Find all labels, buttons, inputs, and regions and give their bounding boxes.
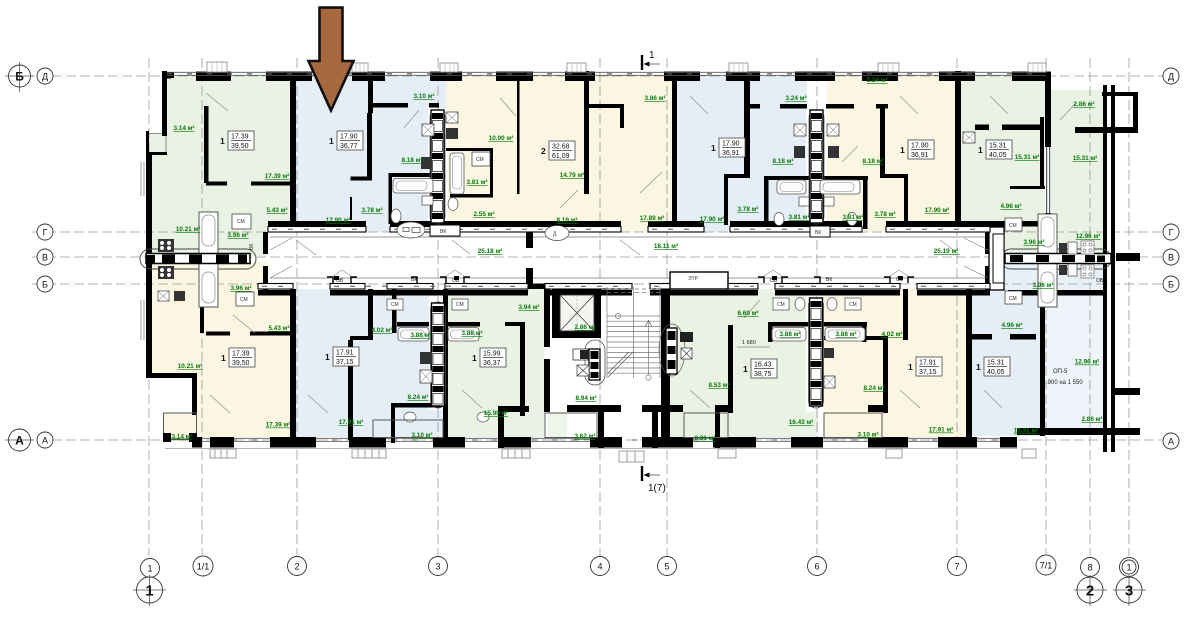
- apartment labels: [220, 131, 1083, 386]
- svg-text:17.39: 17.39: [232, 351, 250, 358]
- svg-text:3.62 м²: 3.62 м²: [574, 433, 595, 440]
- B1 cream bottom-left: [152, 289, 295, 375]
- A3 internal: [517, 79, 520, 194]
- A4 internal: [744, 79, 750, 177]
- svg-text:16.43 м²: 16.43 м²: [789, 419, 814, 426]
- svg-text:3.14 м²: 3.14 м²: [171, 434, 192, 441]
- bathroom fixtures top band: [391, 112, 975, 226]
- svg-text:15.31: 15.31: [987, 360, 1005, 367]
- right entrance core section: [964, 214, 1111, 307]
- ETR room: [670, 272, 728, 289]
- svg-text:Б: Б: [42, 280, 48, 290]
- svg-text:14.79 м²: 14.79 м²: [560, 172, 585, 179]
- svg-text:8.24 м²: 8.24 м²: [407, 394, 428, 401]
- svg-text:А: А: [15, 434, 24, 448]
- top wet core whites: [428, 108, 448, 228]
- svg-text:СМ: СМ: [240, 297, 248, 303]
- svg-text:10.21 м²: 10.21 м²: [178, 363, 203, 370]
- svg-text:37,15: 37,15: [919, 369, 937, 376]
- svg-text:15.31 м²: 15.31 м²: [1073, 155, 1098, 162]
- svg-text:1(7): 1(7): [648, 483, 666, 494]
- svg-text:17.90: 17.90: [340, 134, 358, 141]
- svg-text:1: 1: [145, 583, 153, 600]
- B4 internal: [728, 325, 733, 413]
- svg-text:40,05: 40,05: [987, 369, 1005, 376]
- B1 kitchen fixtures: [158, 291, 169, 301]
- B3 left wall: [443, 289, 448, 437]
- room fills: [146, 76, 1103, 441]
- corridor door labels: [249, 222, 1104, 284]
- svg-text:2.55 м²: 2.55 м²: [473, 211, 494, 218]
- wet core top 2: [809, 110, 824, 224]
- svg-text:17.91 м²: 17.91 м²: [929, 427, 954, 434]
- svg-text:СМ: СМ: [456, 302, 464, 308]
- apt B4 label: [743, 359, 777, 378]
- svg-text:2.86 м²: 2.86 м²: [1073, 101, 1094, 108]
- wing corridor green: [1051, 90, 1103, 253]
- svg-text:3.81 м²: 3.81 м²: [466, 179, 487, 186]
- svg-text:3.78 м²: 3.78 м²: [361, 207, 382, 214]
- svg-text:17.39 м²: 17.39 м²: [266, 422, 291, 429]
- plumbing column with tubs: [199, 212, 218, 307]
- svg-text:3.86 м²: 3.86 м²: [644, 95, 665, 102]
- A3 bath: [450, 153, 464, 194]
- svg-text:3.31 м²: 3.31 м²: [694, 435, 715, 442]
- B5/B6 wall: [966, 289, 972, 437]
- svg-text:18.11 м²: 18.11 м²: [654, 243, 678, 250]
- stove top: [158, 239, 174, 279]
- svg-text:В: В: [1168, 253, 1174, 263]
- svg-text:15.99: 15.99: [483, 351, 501, 358]
- svg-text:1: 1: [1126, 563, 1131, 573]
- svg-text:6: 6: [814, 562, 819, 572]
- svg-text:2: 2: [294, 562, 299, 572]
- svg-text:3: 3: [435, 562, 440, 572]
- svg-text:3.96 м²: 3.96 м²: [1032, 282, 1053, 289]
- svg-text:17.91: 17.91: [919, 360, 937, 367]
- window sills below bottom wall: [210, 449, 1036, 462]
- leader lines: [206, 93, 1075, 413]
- svg-text:ВК: ВК: [249, 244, 255, 250]
- apt B2 label: [325, 347, 359, 366]
- svg-text:3.10 м²: 3.10 м²: [857, 432, 878, 439]
- svg-text:10.21 м²: 10.21 м²: [176, 226, 201, 233]
- walls: [146, 71, 1140, 452]
- svg-text:3.88 м²: 3.88 м²: [461, 330, 482, 337]
- svg-text:2: 2: [1086, 583, 1094, 600]
- svg-text:7: 7: [954, 562, 959, 572]
- svg-text:СМ: СМ: [1009, 296, 1017, 302]
- apt A3 label: [541, 141, 575, 160]
- wet core bottom 2: [809, 298, 824, 408]
- svg-text:17.91 м²: 17.91 м²: [339, 419, 364, 426]
- B3 internal: [520, 322, 525, 416]
- svg-text:СМ: СМ: [476, 157, 484, 163]
- stair core white: [550, 289, 661, 412]
- left exterior wall: [162, 71, 167, 136]
- svg-text:1: 1: [976, 362, 981, 372]
- svg-text:3.88 м²: 3.88 м²: [779, 331, 800, 338]
- svg-text:ЭТР: ЭТР: [688, 276, 699, 282]
- arrow: [309, 8, 354, 111]
- apt B3 label: [472, 348, 506, 367]
- svg-text:3.81 м²: 3.81 м²: [788, 214, 809, 221]
- svg-text:39,50: 39,50: [231, 143, 249, 150]
- B6 internal: [972, 334, 992, 340]
- svg-text:1/1: 1/1: [197, 562, 210, 572]
- svg-text:ВК: ВК: [815, 230, 821, 236]
- svg-text:1: 1: [711, 143, 716, 153]
- svg-text:Г: Г: [43, 228, 48, 238]
- svg-text:17.39: 17.39: [231, 134, 249, 141]
- svg-text:3: 3: [1125, 583, 1133, 600]
- apt A1 label: [220, 131, 254, 150]
- apartment A5 cream: [827, 76, 955, 232]
- svg-text:ВК: ВК: [826, 277, 832, 283]
- apartment A3 cream: [446, 76, 672, 232]
- bathroom fixtures bottom band: [158, 291, 865, 422]
- CM boxes: [232, 214, 251, 229]
- svg-text:3.81 м²: 3.81 м²: [842, 214, 863, 221]
- svg-text:32.68: 32.68: [552, 144, 570, 151]
- svg-text:8.18 м²: 8.18 м²: [401, 157, 422, 164]
- svg-text:38,75: 38,75: [754, 371, 772, 378]
- left entrance core section: [140, 212, 256, 307]
- svg-text:Г: Г: [1169, 228, 1174, 238]
- svg-text:4.96 м²: 4.96 м²: [1000, 203, 1021, 210]
- B2 tubs flanking core3: [398, 328, 429, 342]
- svg-text:37,15: 37,15: [336, 359, 354, 366]
- svg-text:36,77: 36,77: [340, 143, 358, 150]
- corridor bottom wall: black apartment-side bar: [258, 290, 293, 296]
- wing bottom bar: [1017, 428, 1140, 435]
- svg-text:1: 1: [472, 353, 477, 363]
- A6 window overlay: [1045, 147, 1051, 213]
- grid axes dashed: [10, 58, 1163, 556]
- svg-text:3.14 м²: 3.14 м²: [173, 125, 194, 132]
- B1 internal walls: [200, 289, 204, 333]
- corridor outlined walls: [258, 227, 990, 290]
- svg-text:61,09: 61,09: [552, 153, 570, 160]
- apartment A2 blue: [296, 76, 452, 232]
- corridor side walls: [263, 232, 268, 254]
- svg-text:17.90: 17.90: [911, 143, 929, 150]
- svg-text:8: 8: [1087, 563, 1092, 573]
- A2 internal: [368, 76, 373, 113]
- thin balcony rails bottom: [373, 413, 882, 438]
- svg-text:1: 1: [220, 136, 225, 146]
- B2 internal: [348, 340, 353, 440]
- svg-text:1: 1: [743, 364, 748, 374]
- apt A6 label: [978, 140, 1012, 159]
- svg-text:5.43 м²: 5.43 м²: [268, 325, 289, 332]
- svg-text:3.78 м²: 3.78 м²: [874, 211, 895, 218]
- top wall thin window lines: [167, 72, 1046, 75]
- bottom exterior wall piers: [210, 437, 234, 448]
- svg-text:СМ: СМ: [849, 302, 857, 308]
- svg-text:25.18 м²: 25.18 м²: [478, 248, 503, 255]
- svg-text:4: 4: [597, 562, 602, 572]
- stair-side kitchen stack right: [659, 324, 693, 376]
- svg-text:5: 5: [664, 562, 669, 572]
- svg-text:3.96 м²: 3.96 м²: [1023, 239, 1044, 246]
- B4 green: [670, 289, 818, 437]
- svg-text:10.00 м²: 10.00 м²: [489, 135, 514, 142]
- svg-text:ОП-5: ОП-5: [1053, 369, 1068, 375]
- svg-text:3.24 м²: 3.24 м²: [785, 95, 806, 102]
- balcony thin outlines: [164, 413, 197, 439]
- svg-text:2.86 м²: 2.86 м²: [574, 324, 595, 331]
- dimension 1680: [737, 346, 770, 348]
- section marks: [642, 55, 660, 481]
- apt A4 label: [711, 138, 745, 157]
- svg-text:3.24 м²: 3.24 м²: [866, 77, 887, 84]
- svg-text:39,50: 39,50: [232, 360, 250, 367]
- svg-text:36,91: 36,91: [911, 152, 929, 159]
- svg-text:СМ: СМ: [1009, 223, 1017, 229]
- stair core walls: [544, 287, 550, 347]
- B4/B5 tubs flanking core4: [772, 328, 806, 342]
- right core fills: [996, 232, 1103, 254]
- svg-text:3.96 м²: 3.96 м²: [227, 232, 248, 239]
- svg-text:1: 1: [329, 136, 334, 146]
- svg-text:17.90 м²: 17.90 м²: [925, 207, 950, 214]
- svg-text:СМ: СМ: [391, 302, 399, 308]
- svg-text:12.96 м²: 12.96 м²: [1076, 233, 1101, 240]
- svg-text:4.02 м²: 4.02 м²: [371, 327, 392, 334]
- svg-text:Б: Б: [15, 70, 24, 84]
- svg-text:6.60 м²: 6.60 м²: [737, 310, 758, 317]
- svg-text:1: 1: [221, 353, 226, 363]
- svg-text:1: 1: [978, 145, 983, 155]
- A1/A2 wall: [290, 76, 296, 232]
- apt B1 label: [221, 348, 255, 367]
- svg-text:1: 1: [147, 564, 152, 574]
- window bumps above top wall: [207, 62, 1046, 72]
- svg-text:15.31 м²: 15.31 м²: [1014, 428, 1039, 435]
- svg-text:8.18 м²: 8.18 м²: [862, 158, 883, 165]
- svg-text:.900 на 1 550: .900 на 1 550: [1046, 380, 1083, 386]
- apartment A1 green: [162, 76, 296, 232]
- stair-side kitchen stack left: [573, 340, 605, 385]
- svg-text:Д: Д: [42, 72, 48, 82]
- wet core bottom 1: [431, 302, 446, 408]
- svg-text:17.90 м²: 17.90 м²: [700, 216, 725, 223]
- apt A5 label: [900, 140, 934, 159]
- thin gray details: [141, 134, 1017, 449]
- svg-text:В: В: [42, 253, 48, 263]
- svg-text:4.02 м²: 4.02 м²: [881, 331, 902, 338]
- svg-text:8.24 м²: 8.24 м²: [863, 385, 884, 392]
- svg-text:А: А: [42, 436, 48, 446]
- svg-text:15.31: 15.31: [989, 143, 1007, 150]
- svg-text:17.39 м²: 17.39 м²: [265, 173, 290, 180]
- svg-text:1 680: 1 680: [742, 340, 756, 346]
- stairs: [607, 287, 660, 380]
- svg-text:3.88 м²: 3.88 м²: [410, 332, 431, 339]
- svg-text:40,05: 40,05: [989, 152, 1007, 159]
- apt B5 label: [908, 357, 942, 376]
- B2 blue: [295, 289, 447, 437]
- svg-text:А: А: [1168, 437, 1174, 447]
- svg-text:36,37: 36,37: [483, 360, 501, 367]
- svg-text:17.90 м²: 17.90 м²: [326, 217, 351, 224]
- apt B6 label: [976, 357, 1010, 376]
- svg-text:8.94 м²: 8.94 м²: [575, 395, 596, 402]
- svg-text:15.31 м²: 15.31 м²: [1015, 154, 1040, 161]
- svg-text:15.99 м²: 15.99 м²: [484, 410, 509, 417]
- svg-text:8.53 м²: 8.53 м²: [708, 382, 729, 389]
- B5 cream: [824, 289, 966, 437]
- A2 bath tub: [393, 179, 433, 194]
- A6 internal: [1040, 117, 1044, 189]
- apartment A6 green: [961, 76, 1046, 232]
- svg-text:25.19 м²: 25.19 м²: [934, 248, 959, 255]
- svg-text:5.43 м²: 5.43 м²: [266, 207, 287, 214]
- B3 green: [447, 289, 544, 437]
- svg-text:3.88 м²: 3.88 м²: [835, 331, 856, 338]
- A5/A6 wall: [955, 71, 961, 232]
- elevator shaft: [560, 295, 594, 331]
- wet core top 1: [430, 110, 445, 224]
- svg-text:ВК: ВК: [411, 277, 417, 283]
- A4 bath (left of core2): [777, 180, 806, 194]
- A6 bath fixtures: [963, 132, 975, 143]
- bottom core whites: [429, 295, 447, 410]
- svg-text:СМ: СМ: [237, 219, 245, 225]
- svg-text:1: 1: [325, 352, 330, 362]
- door bracket marks: [327, 277, 914, 283]
- B5 internal: [883, 340, 888, 413]
- svg-text:17.91: 17.91: [336, 350, 354, 357]
- svg-text:36,91: 36,91: [722, 150, 740, 157]
- wing walls: [1103, 85, 1107, 428]
- svg-text:4.96 м²: 4.96 м²: [1001, 322, 1022, 329]
- svg-text:12.96 м²: 12.96 м²: [1075, 359, 1100, 366]
- B6 blue: [972, 289, 1040, 436]
- corridor wall column stubs: [526, 232, 533, 248]
- svg-text:2.86 м²: 2.86 м²: [1081, 416, 1102, 423]
- left core upper green / lower cream: [152, 232, 268, 256]
- apartment A4 blue: [677, 76, 807, 232]
- B4 left wall: [665, 289, 670, 443]
- corridor top wall: black apartment-side bar: [268, 221, 366, 227]
- green area labels: [171, 77, 1102, 442]
- A5 internal: [880, 106, 885, 178]
- svg-text:3.96 м²: 3.96 м²: [230, 285, 251, 292]
- svg-text:8.19 м²: 8.19 м²: [556, 217, 577, 224]
- svg-text:1: 1: [649, 50, 655, 61]
- svg-text:Д: Д: [1168, 72, 1174, 82]
- B1/B2 wall: [290, 289, 296, 443]
- top exterior wall piers: [162, 72, 174, 78]
- A5 bath (right of core2): [820, 180, 860, 194]
- svg-text:СМ: СМ: [777, 302, 785, 308]
- svg-text:17.89 м²: 17.89 м²: [640, 215, 665, 222]
- svg-text:1: 1: [900, 145, 905, 155]
- svg-text:7/1: 7/1: [1040, 561, 1053, 571]
- B6 right wall: [1040, 289, 1045, 436]
- svg-text:17.90: 17.90: [722, 141, 740, 148]
- elevator walls: [552, 288, 601, 295]
- A3/A4 wall: [672, 76, 677, 232]
- svg-text:3.10 м²: 3.10 м²: [413, 93, 434, 100]
- lobby walls: [567, 405, 621, 412]
- apt A2 label: [329, 131, 363, 150]
- svg-text:16.43: 16.43: [754, 362, 772, 369]
- A1 internal walls: [204, 106, 209, 183]
- svg-text:Б: Б: [1168, 280, 1174, 290]
- svg-text:ВК: ВК: [440, 229, 446, 235]
- A6 right wall: [1045, 76, 1051, 232]
- svg-text:2: 2: [541, 146, 546, 156]
- svg-text:3.78 м²: 3.78 м²: [737, 206, 758, 213]
- svg-text:3.94 м²: 3.94 м²: [518, 304, 539, 311]
- svg-text:1: 1: [908, 362, 913, 372]
- svg-text:8.18 м²: 8.18 м²: [772, 158, 793, 165]
- svg-text:ОВ: ОВ: [1096, 278, 1104, 284]
- svg-text:3.10 м²: 3.10 м²: [411, 432, 432, 439]
